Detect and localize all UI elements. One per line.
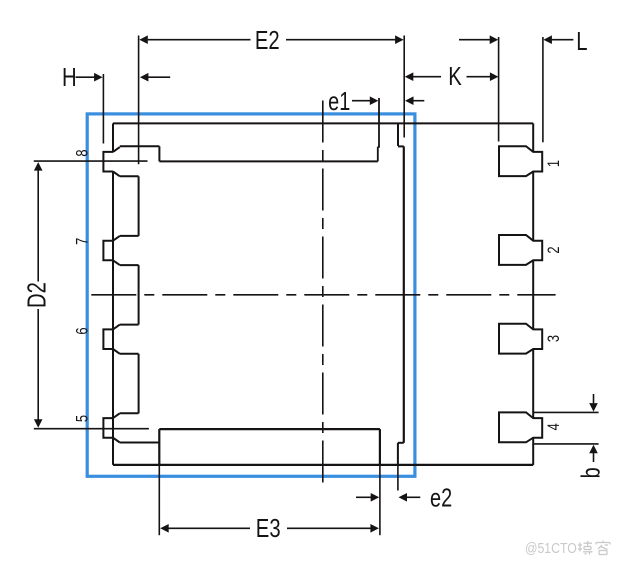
svg-text:K: K <box>448 62 462 91</box>
svg-text:7: 7 <box>74 238 92 245</box>
pad left edge <box>138 176 140 413</box>
dimension e2 <box>356 465 452 512</box>
dimension E3 <box>159 465 380 543</box>
watermark @51CTO博客 <box>525 540 610 556</box>
pin 1 (right lead) <box>499 146 542 176</box>
pad top edge with corner notch <box>159 147 380 162</box>
svg-text:3: 3 <box>545 335 563 342</box>
pin 2 (right lead) <box>499 235 542 265</box>
svg-text:5: 5 <box>74 415 92 422</box>
svg-text:b: b <box>576 467 605 478</box>
pin 3 (right lead) <box>499 324 542 354</box>
svg-text:6: 6 <box>74 327 92 334</box>
pin 4 (right lead) <box>499 412 542 442</box>
pin 5 (left lead) <box>103 413 159 442</box>
package body outline <box>113 123 533 465</box>
vertical centerline <box>322 101 324 488</box>
dimension D2 <box>22 161 149 429</box>
svg-text:E3: E3 <box>256 514 281 543</box>
dimension e1 <box>328 87 424 147</box>
pin 8 (left lead) <box>103 146 159 176</box>
svg-text:D2: D2 <box>22 282 51 308</box>
horizontal centerline <box>91 294 555 296</box>
svg-text:1: 1 <box>545 160 563 167</box>
svg-text:2: 2 <box>545 246 563 253</box>
dimension E2 <box>139 26 405 164</box>
dimension L <box>459 27 588 143</box>
pad right edge and top tie bar <box>398 123 404 442</box>
svg-text:H: H <box>62 63 77 92</box>
pin 6 (left lead) <box>103 325 138 354</box>
svg-text:L: L <box>576 27 587 56</box>
dimension K <box>405 62 499 91</box>
svg-text:e2: e2 <box>430 483 452 512</box>
bottom tie bar <box>398 443 404 465</box>
bottom bar (E3 pad) <box>159 429 380 465</box>
svg-text:E2: E2 <box>255 26 280 55</box>
svg-text:4: 4 <box>545 423 563 430</box>
svg-text:@51CTO: @51CTO <box>525 540 577 556</box>
svg-text:8: 8 <box>74 150 92 157</box>
svg-text:e1: e1 <box>328 87 350 116</box>
highlight box (blue) <box>87 114 415 476</box>
dimension H <box>62 63 170 144</box>
dimension b <box>534 394 606 478</box>
pin 7 (left lead) <box>103 236 138 265</box>
